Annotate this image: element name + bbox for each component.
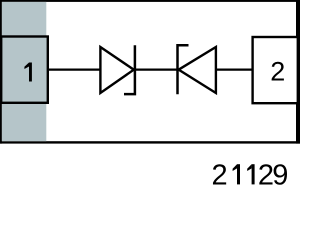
diode D1 (zener, anode left, cathode right) triangle	[100, 47, 133, 93]
wire between D1 cathode and D2 cathode	[136, 68, 178, 70]
package body shading strip	[2, 2, 46, 141]
pin 2 number label	[270, 57, 285, 87]
diode D2 (zener, cathode left, anode right) triangle	[179, 47, 216, 93]
drawing number label 21129	[212, 159, 289, 191]
pin 1 number label	[24, 63, 32, 82]
svg-text:9: 9	[272, 159, 288, 191]
pin 1 terminal box	[1, 37, 48, 103]
diode D2 cathode bar with top-right hook	[178, 45, 189, 94]
diode D1 cathode bar with bottom-left hook	[124, 45, 135, 94]
pin 2 terminal box	[253, 37, 298, 103]
border frame (decorative)	[0, 0, 300, 144]
wire from pin 1 to diode D1 anode	[48, 68, 101, 70]
wire from D2 anode to pin 2	[216, 68, 252, 70]
svg-text:2: 2	[212, 159, 228, 191]
svg-text:2: 2	[270, 57, 285, 87]
